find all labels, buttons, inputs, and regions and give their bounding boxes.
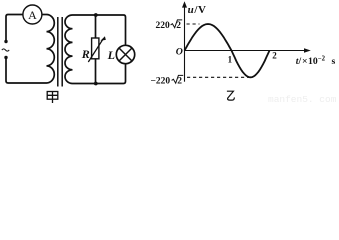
- svg-text:−220: −220: [151, 77, 171, 87]
- svg-text:L: L: [107, 48, 115, 62]
- svg-text:O: O: [176, 46, 183, 57]
- svg-text:R: R: [81, 47, 90, 61]
- svg-text:u/V: u/V: [188, 4, 207, 16]
- svg-text:t/×10−2s: t/×10−2s: [296, 56, 336, 68]
- svg-text:1: 1: [228, 54, 233, 64]
- svg-text:220: 220: [156, 21, 171, 31]
- svg-text:A: A: [28, 8, 37, 22]
- svg-text:manfen5. com: manfen5. com: [268, 94, 337, 105]
- svg-text:2: 2: [272, 50, 277, 60]
